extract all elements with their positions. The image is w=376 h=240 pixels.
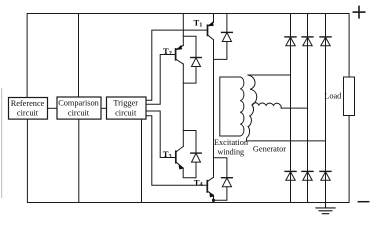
box trigger circuit (107, 97, 147, 119)
transistor T2 (176, 45, 184, 64)
transistor T3 (176, 146, 184, 169)
wire T3 emitter to D3 bottom (183, 168, 196, 178)
diode D8 (bridge bottom leg1) (285, 171, 296, 180)
node T4 emitter junction dot (212, 199, 215, 202)
box reference circuit (9, 98, 48, 120)
wire trigger out2 to T2 base (146, 55, 176, 105)
wire trigger out1 to T1 base (146, 30, 208, 100)
svg-text:Excitation: Excitation (214, 138, 249, 147)
wire T2 emitter to rail (crosses T1 base wire) (182, 14, 184, 46)
diode D3 (across T3) (183, 131, 201, 178)
wire T1 emitter to rail (213, 14, 215, 23)
diode D7 (bridge top leg3) (320, 37, 331, 46)
transistor T4 (207, 177, 214, 197)
label Comparison circuit (58, 98, 99, 117)
box comparison circuit (57, 97, 101, 119)
ground (316, 203, 335, 214)
node + terminal (353, 6, 364, 17)
wire T4 emitter to bottom rail (213, 195, 215, 202)
wire comparison top drop (78, 14, 80, 98)
wire generator tap 2 (281, 107, 307, 109)
wire top + rail (27, 14, 349, 98)
svg-text:circuit: circuit (17, 109, 39, 118)
svg-text:circuit: circuit (115, 108, 137, 117)
svg-text:Generator: Generator (253, 145, 286, 154)
wire comparison bottom drop (78, 119, 80, 202)
inductor excitation winding loop (220, 77, 244, 136)
wire T1 collector down to T4 (213, 40, 215, 177)
resistor Load box (344, 77, 355, 116)
generator winding phase B (horizontal coil) (252, 103, 281, 108)
svg-text:Reference: Reference (11, 99, 45, 108)
svg-text:Load: Load (324, 91, 342, 100)
decorative scan edge line (1, 89, 3, 198)
svg-text:T2: T2 (163, 46, 172, 57)
wire rectifier leg 3 (325, 14, 327, 203)
generator winding phase A (vertical coil) (246, 75, 256, 141)
diode D4 (across T4) (214, 158, 233, 200)
diode D10 (bridge bottom leg3) (320, 171, 331, 180)
wire reference-comparison link (48, 107, 58, 109)
svg-text:Trigger: Trigger (113, 98, 138, 107)
diode D5 (bridge top leg1) (285, 37, 296, 46)
wire generator tap 1 (248, 74, 290, 76)
diode D9 (bridge bottom leg2) (302, 171, 313, 180)
svg-text:T4: T4 (194, 177, 204, 188)
wire comparison-trigger link (101, 107, 107, 109)
wire trigger out4 to T4 base (146, 116, 207, 186)
svg-text:Comparison: Comparison (58, 98, 99, 107)
svg-text:T1: T1 (194, 18, 203, 29)
node - terminal (358, 201, 368, 203)
wire rectifier leg 1 (290, 14, 292, 203)
wire T2 collector down to T3 collector (182, 64, 184, 146)
label Trigger circuit (113, 98, 138, 117)
wire generator tap 3 (246, 140, 325, 142)
label Excitation winding (214, 138, 249, 156)
diode D1 (across T1) (214, 14, 233, 60)
wire trigger bottom drop (141, 119, 143, 202)
diode D6 (bridge top leg2) (302, 37, 313, 46)
diode D2 (across T2) (183, 36, 201, 83)
svg-text:T3: T3 (163, 149, 172, 160)
label Reference circuit (11, 99, 45, 118)
transistor T1 (208, 21, 214, 39)
svg-text:circuit: circuit (68, 108, 90, 117)
svg-text:winding: winding (218, 148, 245, 157)
wire bottom - rail (27, 116, 349, 203)
wire trigger out3 to T3 base (146, 111, 176, 158)
wire rectifier leg 2 (307, 14, 309, 203)
